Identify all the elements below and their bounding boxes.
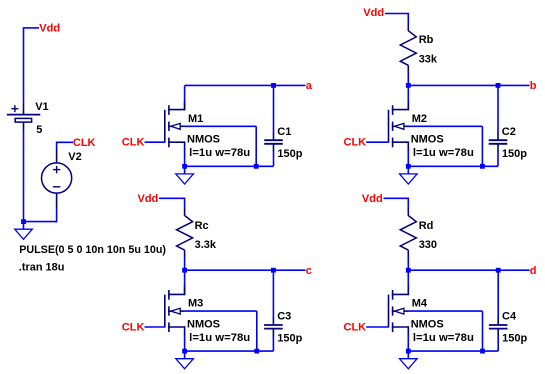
- svg-text:Vdd: Vdd: [362, 193, 383, 205]
- wire source of M3: [184, 334, 186, 351]
- wire Rb bottom: [407, 73, 409, 85]
- svg-text:M4: M4: [412, 298, 428, 310]
- wire source of M4: [407, 334, 409, 351]
- ground under M1: [176, 166, 194, 184]
- wire bulk of M1 vertical: [255, 126, 257, 166]
- ground under M4: [400, 351, 418, 369]
- svg-text:330: 330: [419, 239, 437, 251]
- svg-text:M2: M2: [412, 113, 427, 125]
- wire bulk of M1 horizontal: [184, 125, 256, 127]
- wire bulk of M2 horizontal: [408, 125, 483, 127]
- wire Rb top: [407, 13, 409, 23]
- svg-text:C4: C4: [502, 311, 517, 323]
- svg-text:Vdd: Vdd: [138, 193, 159, 205]
- capacitor C1: [264, 133, 283, 152]
- wire CLK to M1 gate: [145, 141, 165, 143]
- ground under M2: [400, 166, 418, 184]
- svg-text:Rb: Rb: [419, 34, 434, 46]
- svg-text:V1: V1: [35, 101, 48, 113]
- wire CLK to M2 gate: [366, 141, 388, 143]
- svg-text:.tran 18u: .tran 18u: [19, 261, 65, 273]
- wire CLK stub: [57, 141, 73, 143]
- svg-text:150p: 150p: [277, 148, 302, 160]
- transistor M3 (NMOS): [165, 286, 185, 335]
- svg-text:NMOS: NMOS: [411, 134, 444, 146]
- svg-text:150p: 150p: [277, 333, 302, 345]
- resistor Rc: [177, 207, 193, 258]
- wire source rail (M2): [408, 165, 499, 167]
- capacitor C2: [489, 133, 508, 152]
- wire C2 bottom: [497, 151, 499, 166]
- node junction rail/Rc/drain: [182, 268, 187, 273]
- ground left: [15, 222, 33, 240]
- wire node d rail: [408, 269, 529, 271]
- svg-text:CLK: CLK: [122, 137, 145, 149]
- transistor M2 (NMOS): [389, 102, 409, 151]
- wire Vdd to Rb: [385, 13, 408, 15]
- svg-text:5: 5: [36, 124, 42, 136]
- wire drain of M1: [184, 85, 186, 110]
- svg-text:NMOS: NMOS: [187, 319, 220, 331]
- svg-text:C2: C2: [502, 126, 516, 138]
- node junction bulk/rail (M4): [480, 349, 485, 354]
- wire C3 bottom: [272, 336, 274, 351]
- node junction rail/C1: [271, 83, 276, 88]
- wire source of M1: [184, 150, 186, 167]
- wire C1 top: [273, 85, 275, 132]
- wire Vdd to Rc: [159, 197, 185, 199]
- node junction bulk/rail (M2): [480, 164, 485, 169]
- voltage source V1 (battery): [7, 104, 40, 131]
- wire node a rail: [185, 84, 306, 86]
- svg-text:3.3k: 3.3k: [195, 239, 217, 251]
- wire V2 top: [56, 142, 58, 149]
- voltage source V2: [42, 149, 72, 208]
- wire node b rail: [408, 84, 529, 86]
- wire node c rail: [185, 269, 306, 271]
- svg-text:NMOS: NMOS: [411, 319, 444, 331]
- wire source rail (M4): [408, 350, 499, 352]
- node junction source/gnd (M2): [406, 164, 411, 169]
- svg-text:l=1u w=78u: l=1u w=78u: [413, 332, 474, 344]
- wire bulk of M4 horizontal: [408, 310, 483, 312]
- node junction V1/V2/gnd: [21, 219, 26, 224]
- capacitor C3: [264, 317, 283, 336]
- svg-text:l=1u w=78u: l=1u w=78u: [189, 332, 250, 344]
- svg-text:Rd: Rd: [419, 220, 434, 232]
- svg-text:l=1u w=78u: l=1u w=78u: [189, 147, 250, 159]
- wire drain of M4: [407, 270, 409, 295]
- capacitor C4: [489, 317, 508, 336]
- ground under M3: [176, 351, 194, 369]
- svg-text:CLK: CLK: [73, 137, 96, 149]
- svg-text:33k: 33k: [419, 53, 438, 65]
- svg-text:M1: M1: [188, 113, 203, 125]
- resistor Rd: [400, 207, 416, 258]
- svg-text:Rc: Rc: [195, 220, 209, 232]
- node junction bulk/rail (M3): [254, 349, 259, 354]
- wire C2 top: [497, 85, 499, 132]
- svg-text:a: a: [306, 80, 313, 92]
- wire bulk of M2 vertical: [481, 126, 483, 166]
- node junction bulk/rail (M1): [254, 164, 259, 169]
- wire Rd bottom: [407, 258, 409, 270]
- svg-text:M3: M3: [188, 298, 203, 310]
- wire CLK to M3 gate: [145, 326, 165, 328]
- svg-text:CLK: CLK: [122, 322, 145, 334]
- node junction source/gnd (M1): [182, 164, 187, 169]
- wire V2 bottom: [56, 208, 58, 223]
- wire V2 to gnd junction: [23, 221, 57, 223]
- wire drain of M2: [407, 85, 409, 110]
- wire source rail (M1): [184, 165, 274, 167]
- svg-text:C1: C1: [277, 126, 291, 138]
- wire source rail (M3): [184, 350, 274, 352]
- wire Rd top: [407, 198, 409, 208]
- svg-text:V2: V2: [68, 151, 81, 163]
- svg-text:CLK: CLK: [344, 137, 367, 149]
- wire bulk of M3 vertical: [256, 311, 258, 351]
- transistor M1 (NMOS): [165, 102, 185, 151]
- wire source of M2: [407, 150, 409, 167]
- wire Rc bottom: [184, 258, 186, 270]
- resistor Rb: [400, 23, 416, 74]
- svg-text:150p: 150p: [502, 333, 527, 345]
- svg-text:d: d: [530, 265, 537, 277]
- wire V1 top: [23, 27, 25, 103]
- wire bulk of M4 vertical: [482, 311, 484, 351]
- svg-text:b: b: [530, 80, 537, 92]
- svg-text:Vdd: Vdd: [363, 7, 384, 19]
- svg-text:l=1u w=78u: l=1u w=78u: [413, 147, 474, 159]
- svg-text:c: c: [306, 265, 312, 277]
- node junction rail/Rd/drain: [406, 268, 411, 273]
- wire C4 bottom: [497, 336, 499, 351]
- wire drain of M3: [184, 270, 186, 295]
- svg-text:PULSE(0 5 0 10n 10n 5u 10u): PULSE(0 5 0 10n 10n 5u 10u): [19, 244, 166, 256]
- svg-text:CLK: CLK: [344, 322, 367, 334]
- wire bulk of M3 horizontal: [184, 310, 257, 312]
- svg-text:C3: C3: [277, 311, 291, 323]
- wire C4 top: [497, 270, 499, 317]
- node junction rail/C4: [496, 268, 501, 273]
- transistor M4 (NMOS): [389, 286, 409, 335]
- wire V1 bottom: [23, 130, 25, 222]
- node junction rail/C2: [496, 83, 501, 88]
- svg-text:NMOS: NMOS: [187, 134, 220, 146]
- wire Vdd stub to V1: [24, 27, 40, 29]
- wire Vdd to Rd: [384, 197, 409, 199]
- wire CLK to M4 gate: [366, 326, 388, 328]
- node junction source/gnd (M3): [182, 349, 187, 354]
- svg-text:Vdd: Vdd: [39, 23, 60, 35]
- wire Rc top: [184, 198, 186, 208]
- wire C1 bottom: [273, 151, 275, 166]
- node junction source/gnd (M4): [406, 349, 411, 354]
- node junction rail/Rb/drain: [406, 83, 411, 88]
- node junction rail/C3: [271, 268, 276, 273]
- wire C3 top: [272, 270, 274, 317]
- svg-text:150p: 150p: [502, 148, 527, 160]
